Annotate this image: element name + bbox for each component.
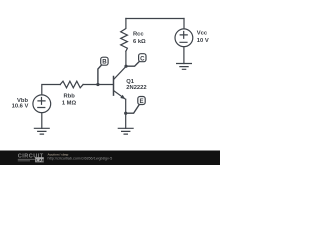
svg-text:Vcc: Vcc [197,31,208,37]
node flag leader E [126,105,139,113]
wire Vcc bottom stem [183,47,185,64]
node flag leader C [126,62,139,66]
svg-text:C: C [140,55,145,62]
svg-text:LAB: LAB [36,158,45,163]
voltage source Vbb [33,95,51,113]
wire Vbb bottom stem [41,113,43,129]
voltage source Vcc [175,29,193,47]
ground G2 under emitter [118,128,133,134]
svg-text:B: B [102,58,107,65]
wire top rail [126,18,184,20]
node flag box E [138,97,145,105]
CircuitLab logo [18,154,45,163]
junction dot collector node C [124,65,127,68]
svg-text:1 MΩ: 1 MΩ [62,101,77,107]
junction dot base node B [96,83,99,86]
ground G1 under Vbb [34,128,49,134]
svg-text:2N2222: 2N2222 [126,85,146,91]
node flag box C [139,54,146,62]
node flag leader B [98,66,101,85]
resistor Rcc [121,19,128,52]
transistor Q1 emitter lead [114,91,126,100]
svg-text:Rbb: Rbb [64,94,76,100]
transistor Q1 collector lead [114,67,126,80]
svg-text:10 V: 10 V [197,38,209,44]
transistor Q1 emitter arrowhead [120,95,125,99]
junction dot emitter node E [124,112,127,115]
svg-text:10.6 V: 10.6 V [12,104,29,110]
svg-text:6 kΩ: 6 kΩ [133,39,146,45]
svg-text:Rcc: Rcc [133,32,144,38]
wire Vcc top stem [183,19,185,29]
wire Rbb to base [83,84,113,86]
svg-text:E: E [139,98,143,105]
resistor Rbb [60,81,83,88]
ground G3 under Vcc [177,64,192,70]
svg-text:http://circuitlab.com/c/6856/1: http://circuitlab.com/c/6856/1wgb8gv-5 [48,156,113,160]
wire Rcc bottom to collector node [125,51,127,66]
wire emitter stem to ground [125,99,127,128]
wire Vbb top to Rbb [42,85,61,95]
node flag box B [101,57,108,65]
footer watermark bar [0,151,220,166]
transistor Q1 base bar [113,77,115,96]
